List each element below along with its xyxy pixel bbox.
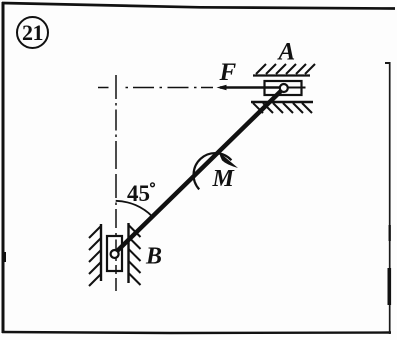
svg-text:21: 21 — [22, 20, 43, 45]
svg-text:A: A — [277, 39, 296, 66]
svg-text:F: F — [219, 59, 237, 86]
svg-text:45: 45 — [127, 181, 150, 206]
svg-text:M: M — [212, 166, 236, 192]
svg-text:B: B — [145, 244, 162, 270]
